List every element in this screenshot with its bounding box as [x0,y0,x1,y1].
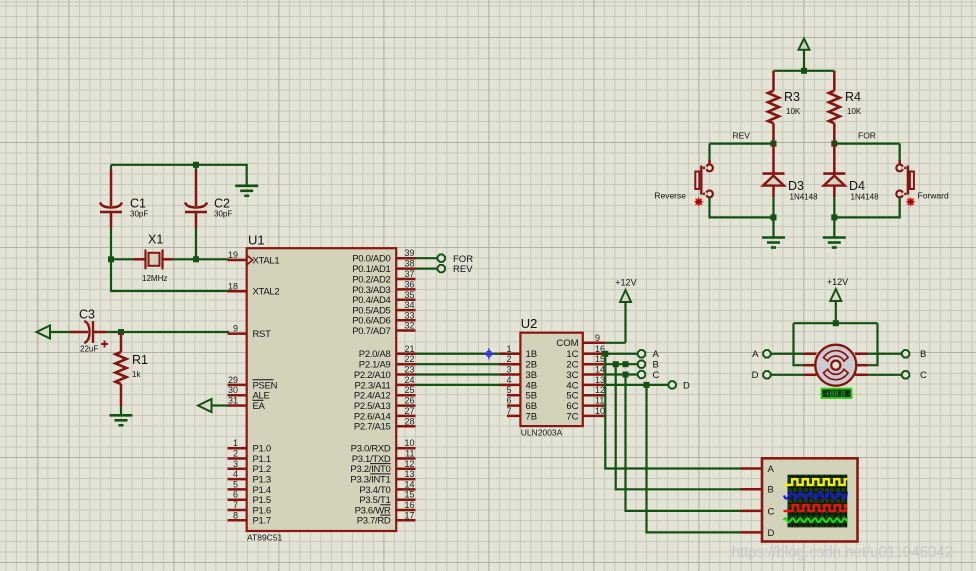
diode D3 1N4148 [763,144,819,202]
wire 4C to scope D [647,385,741,533]
wire motor to terminal C [868,374,901,376]
svg-text:A: A [768,464,775,475]
junction 2C aux [623,361,629,367]
wire 3C to terminal C [605,373,637,375]
svg-text:10: 10 [404,438,414,448]
pin 8 P1.7 (U1) [228,510,271,526]
svg-text:1: 1 [233,438,238,448]
motor body [804,345,869,386]
capacitor C2 [185,170,232,229]
svg-text:16: 16 [404,500,414,510]
svg-text:13: 13 [595,375,605,385]
wire terminal A to motor [771,353,804,355]
op-amp U2 ULN2003A body [520,316,582,438]
svg-text:FOR: FOR [453,254,473,265]
svg-text:+12V: +12V [827,277,848,287]
ground (below D4) [823,217,846,247]
pin D (oscilloscope) [741,528,775,539]
svg-text:36: 36 [404,279,414,289]
wire FOR horizontal [834,143,899,145]
pin 21 P2.0/A8 (U1) [359,344,416,360]
wire 1C to scope A [605,354,740,469]
crystal X1 [133,233,173,284]
pin 5 P1.4 (U1) [228,479,271,495]
svg-text:10K: 10K [786,107,801,116]
svg-text:3: 3 [506,365,511,375]
svg-text:7: 7 [506,406,511,416]
pin 16 1C (U2) [566,344,605,360]
node REV terminal [438,264,474,275]
ground arrow terminal (EA) [198,399,228,412]
value display +88.8 (motor) [822,389,852,399]
svg-text:+12V: +12V [615,278,636,288]
svg-text:19: 19 [228,250,238,260]
svg-text:C: C [768,506,775,517]
transistor-button Forward (push button) [896,160,949,201]
junction 4C drop [644,382,650,388]
pin 19 XTAL1 (U1) [228,250,280,266]
pin 39 P0.0/AD0 (U1) [352,248,415,264]
svg-text:7B: 7B [526,411,538,422]
svg-text:30: 30 [228,385,238,395]
svg-text:23: 23 [404,365,414,375]
svg-text:34: 34 [404,300,414,310]
svg-text:14: 14 [404,479,414,489]
svg-text:P3.7/RD: P3.7/RD [357,516,391,527]
power +12V (U2 COM) [605,278,636,343]
svg-text:P2.0/A8: P2.0/A8 [359,349,391,360]
ground arrow terminal (reset) [37,326,71,339]
resistor R1 1k [116,332,149,406]
pin 16 P3.6/WR (U1) [355,500,416,516]
node FOR net label [858,131,876,141]
junction 1C drop [602,351,608,357]
wire motor left common [794,323,804,365]
interactive marker (Forward) [906,197,916,207]
node A terminal (motor) [752,349,770,360]
resistor R3 body [768,91,779,124]
junction 2C drop [613,361,619,367]
svg-text:R3: R3 [784,90,800,104]
svg-text:RST: RST [253,329,272,340]
wire XTAL2 net [111,259,229,291]
svg-text:10: 10 [595,406,605,416]
interactive marker (Reverse) [694,197,704,207]
svg-text:D: D [683,380,690,391]
svg-text:39: 39 [404,248,414,258]
junction D4-button [831,214,837,220]
svg-text:1: 1 [506,344,511,354]
svg-text:4: 4 [506,375,511,385]
pin 30 ALE (U1) [228,385,270,401]
svg-text:38: 38 [404,259,414,269]
junction motor +12V [833,320,839,326]
svg-text:P2.4/A12: P2.4/A12 [354,391,391,402]
pin 13 P3.3/INT1 (U1) [350,469,415,485]
pin 31 EA (U1) [228,396,266,412]
pin 15 P3.5/T1 (U1) [359,490,415,506]
junction RST-R1 [118,329,124,335]
svg-text:25: 25 [404,385,414,395]
pin 7 7B (U2) [506,406,537,422]
svg-text:9: 9 [233,324,238,334]
wire RST net [107,331,229,333]
svg-text:P0.3/AD3: P0.3/AD3 [352,285,390,296]
wire REV to button [708,144,710,160]
pin 6 P1.5 (U1) [228,490,271,506]
svg-text:3: 3 [233,459,238,469]
capacitor C3 (polarized 22uF) [70,308,108,354]
svg-text:5: 5 [233,479,238,489]
diode D4 1N4148 [823,144,879,202]
svg-text:P0.0/AD0: P0.0/AD0 [352,254,390,265]
svg-text:R1: R1 [132,353,148,367]
svg-text:C3: C3 [79,308,95,322]
pin 25 P2.4/A12 (U1) [354,385,416,401]
svg-text:P2.7/A15: P2.7/A15 [354,422,391,433]
wire 3C to scope C [626,375,741,511]
wire C1-C2-ground top rail [111,164,247,166]
svg-text:37: 37 [404,269,414,279]
ground (below R1) [110,406,133,425]
wire C2 bottom to XTAL1 net [195,229,197,260]
op-amp U1 AT89C51 body [247,233,397,543]
pin 27 P2.6/A14 (U1) [354,406,416,422]
svg-text:REV: REV [453,264,473,275]
node B terminal (U2) [638,360,659,371]
svg-text:29: 29 [228,375,238,385]
svg-text:EA: EA [253,401,266,412]
resistor R1 body [116,352,127,384]
pin C (oscilloscope) [741,506,775,517]
pin 36 P0.3/AD3 (U1) [352,279,415,295]
svg-text:D: D [768,528,775,539]
svg-text:FOR: FOR [858,131,876,141]
pin 32 P0.7/AD7 (U1) [352,321,415,337]
svg-text:12: 12 [595,385,605,395]
svg-text:3C: 3C [566,370,578,381]
pin A (oscilloscope) [741,464,775,475]
svg-text:Reverse: Reverse [654,191,686,201]
wire P0.0 to FOR terminal [416,257,438,259]
svg-text:P2.2/A10: P2.2/A10 [354,370,391,381]
wire motor to terminal B [868,353,901,355]
pin 2 2B (U2) [500,354,538,370]
svg-text:12MHz: 12MHz [142,274,167,283]
pin 13 4C (U2) [566,375,605,391]
node A terminal (U2) [638,349,660,360]
pin 28 P2.7/A15 (U1) [354,416,416,432]
svg-text:11: 11 [405,449,414,459]
pin 7 P1.6 (U1) [228,500,271,516]
svg-text:U2: U2 [521,316,538,331]
pin 5 5B (U2) [506,385,537,401]
ground (below D3) [762,217,785,247]
wire D3 anode [772,197,774,217]
resistor R3 10K [768,71,801,144]
svg-text:P0.7/AD7: P0.7/AD7 [352,326,390,337]
svg-text:3B: 3B [526,370,538,381]
pin 35 P0.4/AD4 (U1) [352,290,415,306]
waveform channel A (yellow) [784,479,848,485]
node C terminal (U2) [638,370,660,381]
svg-text:9: 9 [595,333,600,343]
svg-text:C2: C2 [214,197,230,211]
junction D3-button [771,214,777,220]
wire C1 bottom to XTAL1 net [110,229,112,260]
svg-text:P2.6/A14: P2.6/A14 [354,411,391,422]
wire 4C to terminal D [605,384,668,386]
pin 14 P3.4/T0 (U1) [359,479,415,495]
svg-text:14: 14 [595,365,605,375]
junction XTAL1-C2 [193,256,199,262]
svg-text:R4: R4 [845,90,861,104]
svg-text:P0.2/AD2: P0.2/AD2 [352,274,390,285]
svg-text:27: 27 [404,406,414,416]
svg-text:AT89C51: AT89C51 [247,533,283,543]
wire FOR to button [899,144,901,160]
pin 4 P1.3 (U1) [228,469,271,485]
svg-text:ULN2003A: ULN2003A [521,428,563,438]
svg-text:17: 17 [404,510,414,520]
wire REV horizontal [710,143,774,145]
svg-text:11: 11 [595,396,604,406]
capacitor C1 [100,170,148,229]
junction C2 top [193,162,199,168]
svg-text:2: 2 [233,449,238,459]
svg-text:33: 33 [404,310,414,320]
oscilloscope body [762,458,858,541]
waveform channel B (blue) [784,492,851,498]
svg-text:1k: 1k [132,370,141,379]
wire P0.1 to REV terminal [416,268,438,270]
svg-text:22: 22 [404,354,414,364]
svg-text:30pF: 30pF [130,210,148,219]
svg-text:1C: 1C [566,349,578,360]
pin 23 P2.2/A10 (U1) [354,365,416,381]
resistor R4 body [829,91,840,124]
pin 22 P2.1/A9 (U1) [359,354,416,370]
pin 12 P3.2/INT0 (U1) [350,459,415,475]
transistor-button Reverse (push button) [654,160,713,201]
svg-text:7C: 7C [566,411,578,422]
svg-text:B: B [768,485,774,496]
svg-text:24: 24 [404,375,414,385]
svg-text:U1: U1 [248,233,265,248]
svg-text:+88.8: +88.8 [825,389,846,398]
wire C1 top lead corner [110,165,112,171]
pin 9 RST (U1) [228,324,272,340]
waveform channel D (green) [784,518,851,522]
wire P2.2 to 3B [416,373,500,375]
pin 11 P3.1/TXD (U1) [352,449,416,465]
wire P2.0 to 1B [416,353,500,355]
svg-text:X1: X1 [148,233,163,247]
wire motor common rail [794,322,878,324]
svg-text:30pF: 30pF [214,210,232,219]
pin 12 5C (U2) [566,385,605,401]
svg-text:C1: C1 [130,197,146,211]
svg-text:P0.1/AD1: P0.1/AD1 [352,264,390,275]
pin 14 3C (U2) [566,365,605,381]
svg-text:D4: D4 [849,179,865,193]
wire terminal D to motor [771,374,804,376]
wire XTAL1 net right [173,258,230,260]
svg-text:4: 4 [233,469,238,479]
svg-text:6: 6 [233,490,238,500]
svg-text:7: 7 [233,500,238,510]
svg-text:P1.7: P1.7 [253,516,271,527]
svg-text:31: 31 [228,396,238,406]
svg-text:XTAL1: XTAL1 [253,255,280,266]
node D terminal (motor) [752,370,771,381]
wire motor right common [868,323,877,365]
pin 3 3B (U2) [500,365,538,381]
svg-text:10K: 10K [847,107,862,116]
svg-text:21: 21 [404,344,414,354]
pin 37 P0.2/AD2 (U1) [352,269,415,285]
power +12V (motor) [827,277,848,323]
svg-text:D3: D3 [788,179,804,193]
wire P2.1 to 2B [416,363,500,365]
pin 2 P1.1 (U1) [228,449,271,465]
svg-text:26: 26 [404,396,414,406]
pin 29 PSEN (U1) [228,375,278,391]
pin 4 4B (U2) [500,375,538,391]
node D terminal (U2) [669,380,691,391]
svg-text:A: A [752,349,759,360]
pin 10 P3.0/RXD (U1) [351,438,416,454]
junction FOR-D4 [831,141,837,147]
svg-text:1B: 1B [526,349,538,360]
svg-text:1N4148: 1N4148 [851,193,880,202]
svg-text:5C: 5C [566,391,578,402]
pin 10 7C (U2) [566,406,605,422]
svg-text:35: 35 [404,290,414,300]
ground (top, crystal rail) [235,164,258,196]
svg-text:8: 8 [233,510,238,520]
node FOR terminal [438,254,474,265]
pin 15 2C (U2) [566,354,605,370]
pin 1 1B (U2) [500,344,538,360]
pin 11 6C (U2) [566,396,605,412]
watermark [732,544,954,561]
wire button Forward to D4 anode [834,198,899,218]
svg-text:D: D [752,370,759,381]
svg-text:22uF: 22uF [80,345,98,354]
pin 38 P0.1/AD1 (U1) [352,259,415,275]
svg-text:C: C [653,370,660,381]
node REV net label [733,131,751,141]
pin 3 P1.2 (U1) [228,459,271,475]
pin 6 6B (U2) [506,396,537,412]
svg-text:18: 18 [228,281,238,291]
pin B (oscilloscope) [741,485,774,496]
wire XTAL1 net left [111,258,133,260]
svg-text:13: 13 [404,469,414,479]
junction XTAL1-C1 [108,256,114,262]
svg-text:5B: 5B [526,391,538,402]
pin 9 COM (U2) [556,333,605,349]
svg-text:C: C [920,370,927,381]
wire D4 anode [833,197,835,217]
power arrow (top rail) [799,39,810,71]
junction top rail [801,68,807,74]
pin 24 P2.3/A11 (U1) [355,375,416,391]
svg-text:Forward: Forward [918,191,949,201]
node B terminal (motor) [902,349,926,360]
svg-text:A: A [653,349,660,360]
svg-text:15: 15 [404,490,414,500]
wire 1C to terminal A [605,353,637,355]
wire 2C to scope B [616,364,741,489]
wire C2 top lead corner [195,165,197,171]
svg-text:2: 2 [506,354,511,364]
svg-text:B: B [920,349,926,360]
node C terminal (motor) [902,370,927,381]
origin marker (blue) [484,348,495,359]
svg-text:COM: COM [556,338,578,349]
pin 17 P3.7/RD (U1) [357,510,416,526]
svg-text:32: 32 [404,321,414,331]
pin 34 P0.5/AD5 (U1) [352,300,415,316]
svg-text:REV: REV [733,131,751,141]
svg-text:28: 28 [404,416,414,426]
svg-text:https://blog.csdn.net/u0110460: https://blog.csdn.net/u011046042 [732,544,954,561]
pin 1 P1.0 (U1) [228,438,271,454]
wire top rail [774,70,835,72]
junction REV-D3 [771,141,777,147]
pin 33 P0.6/AD6 (U1) [352,310,415,326]
svg-text:5: 5 [506,385,511,395]
svg-text:6: 6 [506,396,511,406]
wire P2.3 to 4B [416,384,500,386]
wire 2C to terminal B [605,363,637,365]
svg-text:12: 12 [404,459,414,469]
resistor R4 10K [829,71,862,144]
junction 3C drop [623,372,629,378]
svg-text:1N4148: 1N4148 [790,193,819,202]
svg-text:XTAL2: XTAL2 [253,287,280,298]
pin 18 XTAL2 (U1) [228,281,280,297]
waveform channel C (red) [784,505,848,511]
pin 26 P2.5/A13 (U1) [354,396,416,412]
wire button Reverse to D3 anode [710,198,774,218]
